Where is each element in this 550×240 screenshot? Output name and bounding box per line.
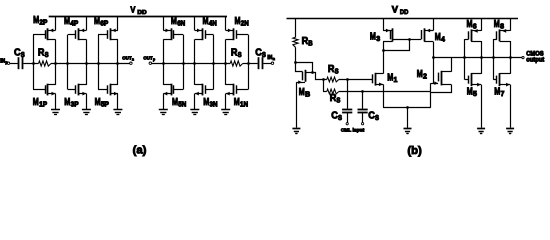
svg-text:(a): (a): [133, 145, 147, 157]
svg-text:5P: 5P: [101, 102, 109, 109]
node tail: [406, 106, 409, 109]
svg-text:B: B: [308, 41, 312, 48]
svg-text:output: output: [526, 57, 544, 63]
svg-text:M: M: [171, 16, 177, 27]
label M8: [494, 19, 504, 31]
label M6: [467, 19, 477, 31]
svg-text:4: 4: [441, 36, 445, 43]
transistor M2N: [226, 17, 249, 63]
power rail VDD (b): [287, 18, 519, 20]
node drain2 (a): [85, 62, 88, 65]
transistor M7: [493, 58, 510, 128]
transistor M1: [373, 73, 384, 108]
svg-text:7: 7: [501, 91, 505, 98]
node B (a): [54, 62, 57, 65]
ground shared M1 M2: [404, 129, 412, 134]
label INp: [0, 58, 8, 64]
svg-text:M: M: [234, 97, 240, 108]
transistor M5P: [98, 63, 118, 109]
output terminal CMOS: [522, 57, 524, 59]
label M6P: [94, 16, 109, 28]
svg-text:M: M: [64, 97, 70, 108]
svg-text:S: S: [21, 52, 25, 59]
ground below M5: [477, 129, 485, 134]
label M5: [467, 87, 477, 99]
svg-text:M: M: [435, 32, 441, 43]
transistor M5: [465, 58, 482, 128]
label M2N: [235, 16, 249, 28]
node gate2 (a): [66, 62, 69, 65]
input terminal INp: [7, 62, 17, 64]
node drains M8 M7: [509, 56, 512, 59]
label INn: [267, 55, 275, 61]
label RS left (a): [38, 47, 49, 59]
svg-text:V: V: [130, 5, 135, 15]
label M5N: [172, 97, 186, 109]
resistor RS right (a): [230, 61, 243, 66]
svg-text:5N: 5N: [178, 102, 186, 109]
svg-text:3N: 3N: [210, 102, 218, 109]
label CML input: [341, 127, 365, 133]
wire gate column 2P 1P: [33, 35, 35, 90]
wire cap2 stem: [362, 91, 364, 108]
svg-text:n: n: [132, 57, 134, 61]
wire line1 to M1 gate: [339, 79, 373, 81]
svg-text:6P: 6P: [100, 21, 108, 28]
label CS left (a): [14, 47, 25, 59]
node cap2 tap: [361, 90, 364, 93]
caption (a): [133, 145, 147, 157]
transistor M6N: [163, 17, 183, 63]
label M5P: [95, 97, 110, 109]
transistor M1N: [226, 63, 249, 109]
svg-text:S: S: [336, 97, 340, 104]
svg-text:M: M: [299, 87, 305, 98]
svg-text:M: M: [33, 15, 39, 26]
wire cap2 to terminal: [362, 112, 364, 122]
node gate tie M3 M4: [408, 38, 411, 41]
wire cap to INn: [264, 63, 272, 65]
label CS right (b): [368, 111, 379, 123]
label RS right (a): [231, 47, 242, 59]
wire cap1 to terminal: [347, 112, 349, 122]
label VDD (b): [392, 5, 409, 17]
svg-text:M: M: [235, 16, 241, 27]
svg-text:OUT: OUT: [143, 55, 152, 60]
terminal CML input 2: [362, 123, 364, 125]
transistor M2: [431, 58, 452, 108]
wire RS to cap right: [243, 63, 258, 65]
wire RS to OUTn: [51, 63, 130, 65]
resistor RB: [293, 37, 298, 47]
label M3: [370, 32, 380, 44]
svg-text:S: S: [262, 52, 266, 59]
node drain 4N (a): [193, 62, 196, 65]
ground below MB: [292, 129, 300, 134]
svg-text:M: M: [33, 97, 39, 108]
label CS left (b): [331, 111, 342, 123]
wire line2 head: [323, 91, 327, 93]
capacitor CS right (a): [259, 57, 263, 69]
svg-text:2P: 2P: [39, 20, 47, 27]
wire cap to node A: [24, 63, 39, 65]
wire gate column 6P 5P: [98, 35, 100, 90]
svg-text:4N: 4N: [209, 21, 217, 28]
transistor M4: [410, 18, 434, 42]
transistor M8: [493, 18, 510, 58]
wire RB to bias node: [295, 47, 297, 62]
svg-text:M: M: [417, 69, 423, 80]
label M2P: [33, 15, 48, 27]
resistor RS left (a): [39, 61, 52, 66]
resistor RS upper (b): [327, 77, 339, 82]
ground below M5P: [113, 110, 122, 115]
label MB: [299, 87, 310, 99]
ground below M1P: [51, 110, 60, 115]
transistor M4N: [195, 17, 214, 63]
svg-text:M: M: [467, 87, 473, 98]
wire gate column 4N 3N: [213, 35, 215, 90]
node drain 6N (a): [162, 62, 165, 65]
svg-text:M: M: [494, 19, 500, 30]
svg-text:S: S: [238, 52, 242, 59]
svg-text:3P: 3P: [71, 102, 79, 109]
label M1P: [33, 97, 48, 109]
svg-text:3: 3: [376, 36, 380, 43]
node drain 2N (a): [224, 62, 227, 65]
svg-text:M: M: [203, 16, 209, 27]
wire cap1 stem: [347, 79, 349, 108]
svg-text:M: M: [467, 19, 473, 30]
svg-text:6N: 6N: [177, 21, 185, 28]
label M7: [494, 87, 504, 99]
transistor M5N: [163, 63, 183, 109]
svg-text:4P: 4P: [70, 21, 78, 28]
wire tail stem: [407, 107, 409, 128]
svg-text:CML input: CML input: [341, 127, 365, 133]
transistor M3: [383, 18, 410, 51]
svg-text:S: S: [338, 115, 342, 122]
output terminal OUTp: [149, 62, 151, 64]
label RS lower (b): [330, 93, 341, 105]
node gate column 1 (b): [463, 56, 466, 59]
label M4: [435, 32, 445, 44]
transistor M2P: [33, 17, 56, 63]
svg-text:1P: 1P: [39, 102, 47, 109]
wire gate column 2N 1N: [248, 35, 250, 90]
wire gate column 4P 3P: [67, 35, 69, 90]
node MB drain: [311, 71, 314, 74]
resistor RS lower (b): [327, 89, 339, 94]
transistor M1P: [33, 63, 56, 109]
node gate 2N (a): [247, 62, 250, 65]
wire gate column M8 M7: [493, 39, 495, 80]
ground below M7: [506, 129, 514, 134]
node gate column 2 (b): [492, 56, 495, 59]
transistor M3P: [68, 63, 87, 109]
label CS right (a): [255, 47, 266, 59]
node M3 drain / M1 drain: [382, 49, 385, 52]
svg-text:OUT: OUT: [122, 55, 131, 60]
transistor M6P: [98, 17, 118, 63]
svg-text:M: M: [203, 97, 209, 108]
label M4N: [203, 16, 217, 28]
wire M4 drain feed: [433, 42, 435, 83]
wire line2 to M2: [339, 91, 431, 93]
svg-text:S: S: [45, 52, 49, 59]
input terminal INn: [271, 62, 273, 64]
wire line1 head: [323, 79, 327, 81]
svg-text:p: p: [153, 57, 155, 61]
transistor M6: [465, 18, 482, 58]
label RS upper (b): [328, 64, 339, 76]
svg-text:M: M: [387, 72, 393, 83]
ground below M1N: [221, 110, 230, 115]
svg-text:M: M: [64, 16, 70, 27]
svg-text:n: n: [273, 57, 276, 61]
label M1: [387, 72, 397, 84]
node gate3 (a): [97, 62, 100, 65]
transistor MB: [296, 70, 312, 128]
ground below M3N: [190, 110, 199, 115]
label M1N: [234, 97, 248, 109]
capacitor CS right (b): [358, 110, 368, 113]
svg-text:DD: DD: [400, 9, 409, 16]
wire MB drain to line1: [313, 73, 324, 80]
wire MB gate loop: [296, 63, 303, 72]
svg-text:DD: DD: [137, 10, 146, 16]
node bias (b): [294, 61, 297, 64]
wire M1 drain up: [383, 51, 385, 74]
terminal CML input 1: [346, 123, 348, 125]
label M3N: [203, 97, 217, 109]
svg-text:M: M: [172, 97, 178, 108]
svg-text:8: 8: [500, 24, 504, 31]
svg-text:6: 6: [473, 24, 477, 31]
svg-text:S: S: [335, 68, 339, 75]
label M3P: [64, 97, 79, 109]
transistor M4P: [68, 17, 87, 63]
wire split down to line2: [323, 79, 325, 91]
svg-text:S: S: [375, 115, 379, 122]
svg-text:V: V: [392, 5, 398, 15]
power rail VDD (a): [49, 16, 227, 18]
wire gate column 6N 5N: [183, 35, 185, 90]
node drain3 (a): [116, 62, 119, 65]
label OUTn: [122, 55, 134, 61]
node A (a): [32, 62, 35, 65]
svg-text:1N: 1N: [240, 102, 248, 109]
svg-text:M: M: [370, 32, 376, 43]
wire rail to RB: [295, 18, 297, 37]
label M6N: [171, 16, 185, 28]
svg-text:1: 1: [394, 77, 398, 84]
node gate 4N (a): [212, 62, 215, 65]
label VDD (a): [130, 5, 146, 17]
ground below M5N: [159, 110, 168, 115]
label M4P: [64, 16, 79, 28]
capacitor CS left (b): [342, 110, 352, 113]
svg-text:M: M: [494, 87, 500, 98]
caption (b): [407, 145, 422, 157]
transistor M3N: [195, 63, 214, 109]
svg-text:M: M: [94, 16, 100, 27]
wire tail bar: [383, 107, 431, 109]
wire OUTp to RS right: [152, 63, 231, 65]
node RS split: [322, 78, 325, 81]
svg-text:B: B: [305, 92, 310, 99]
wire gate column M6 M5: [464, 39, 466, 80]
node cap1 tap: [346, 78, 349, 81]
wire output line: [433, 57, 522, 59]
label M2: [417, 69, 427, 81]
svg-text:2N: 2N: [241, 21, 249, 28]
wire mirror link: [384, 40, 410, 51]
svg-text:2: 2: [423, 74, 427, 81]
output terminal OUTn: [130, 62, 132, 64]
wire MB diode loop: [296, 63, 313, 73]
label CMOS output: [526, 51, 544, 64]
ground below M3P: [82, 110, 91, 115]
node gate 6N (a): [182, 62, 185, 65]
label RB: [302, 36, 313, 48]
capacitor CS left (a): [19, 57, 23, 69]
label OUTp: [143, 55, 155, 61]
svg-text:M: M: [95, 97, 101, 108]
node drains M6 M5: [480, 56, 483, 59]
node M4 drain line: [432, 56, 435, 59]
svg-text:(b): (b): [407, 145, 422, 157]
svg-text:5: 5: [473, 91, 477, 98]
